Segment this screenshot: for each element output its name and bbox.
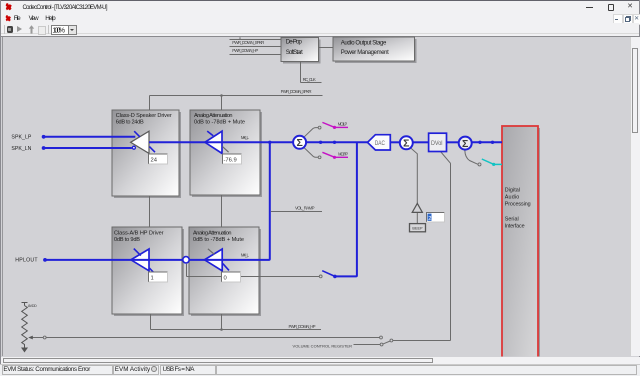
svg-text:Power Management: Power Management [341,50,389,56]
svg-text:Processing: Processing [505,202,531,208]
svg-text:2: 2 [428,216,431,222]
svg-text:MIX_L: MIX_L [241,135,250,140]
svg-text:PWR_DOWN_SPKR: PWR_DOWN_SPKR [232,40,264,45]
svg-text:DAC: DAC [375,140,385,147]
svg-text:-76.9: -76.9 [224,158,237,164]
svg-text:PWR_DOWN_HP: PWR_DOWN_HP [289,324,316,329]
svg-text:6dB to 24dB: 6dB to 24dB [116,119,144,125]
svg-text:Interface: Interface [505,224,525,230]
svg-text:SPK_LN: SPK_LN [11,146,31,152]
svg-text:CodecControl - [TLV320AIC3120E: CodecControl - [TLV320AIC3120EVM-U] [23,5,108,11]
svg-text:VOLUME CONTROL REGISTER: VOLUME CONTROL REGISTER [293,344,353,349]
svg-text:24: 24 [151,158,158,164]
svg-text:1: 1 [151,276,154,282]
svg-text:PWR_DOWN_HP: PWR_DOWN_HP [232,48,258,53]
svg-text:Analog Attenuation: Analog Attenuation [193,230,232,236]
svg-text:0: 0 [224,276,227,282]
svg-text:MIC1LP: MIC1LP [338,121,348,126]
svg-text:MIX_L: MIX_L [241,252,250,257]
svg-text:0dB to 9dB: 0dB to 9dB [114,237,140,243]
svg-text:De-Pop: De-Pop [286,40,303,46]
svg-text:View: View [29,15,39,22]
svg-text:Digital: Digital [505,188,520,194]
svg-text:Help: Help [45,15,56,22]
svg-text:HPLOUT: HPLOUT [15,258,38,264]
svg-text:MIC1RP: MIC1RP [338,151,348,156]
svg-text:Audio Output Stage: Audio Output Stage [341,40,387,46]
svg-text:Σ: Σ [296,137,302,149]
svg-text:RC_CLK: RC_CLK [303,77,316,82]
svg-text:SoftStart: SoftStart [286,50,303,56]
svg-text:PWR_DOWN_SPKR: PWR_DOWN_SPKR [281,89,312,94]
svg-text:Analog Attenuation: Analog Attenuation [194,113,233,119]
svg-text:0dB to -78dB + Mute: 0dB to -78dB + Mute [194,119,245,125]
svg-text:DVol: DVol [431,140,443,147]
svg-text:100%: 100% [52,27,65,34]
svg-text:Audio: Audio [505,195,520,201]
svg-text:SPK_LP: SPK_LP [11,134,32,140]
svg-text:BEEP: BEEP [412,227,423,231]
svg-text:EVM Status: Communications Err: EVM Status: Communications Error [3,366,90,373]
svg-text:Class-D Speaker Driver: Class-D Speaker Driver [116,113,172,119]
svg-text:0dB to -78dB + Mute: 0dB to -78dB + Mute [193,237,244,243]
svg-text:VOL_RAMP: VOL_RAMP [295,205,315,210]
svg-text:Σ: Σ [462,138,468,150]
svg-text:Class-A/B HP Driver: Class-A/B HP Driver [114,230,164,236]
svg-text:USB Fs = N/A: USB Fs = N/A [163,366,196,373]
svg-text:EVM Activity: EVM Activity [115,366,151,373]
svg-text:AVDD: AVDD [28,304,37,308]
svg-text:File: File [14,15,21,22]
svg-text:Σ: Σ [403,138,409,150]
svg-text:Serial: Serial [505,217,519,223]
